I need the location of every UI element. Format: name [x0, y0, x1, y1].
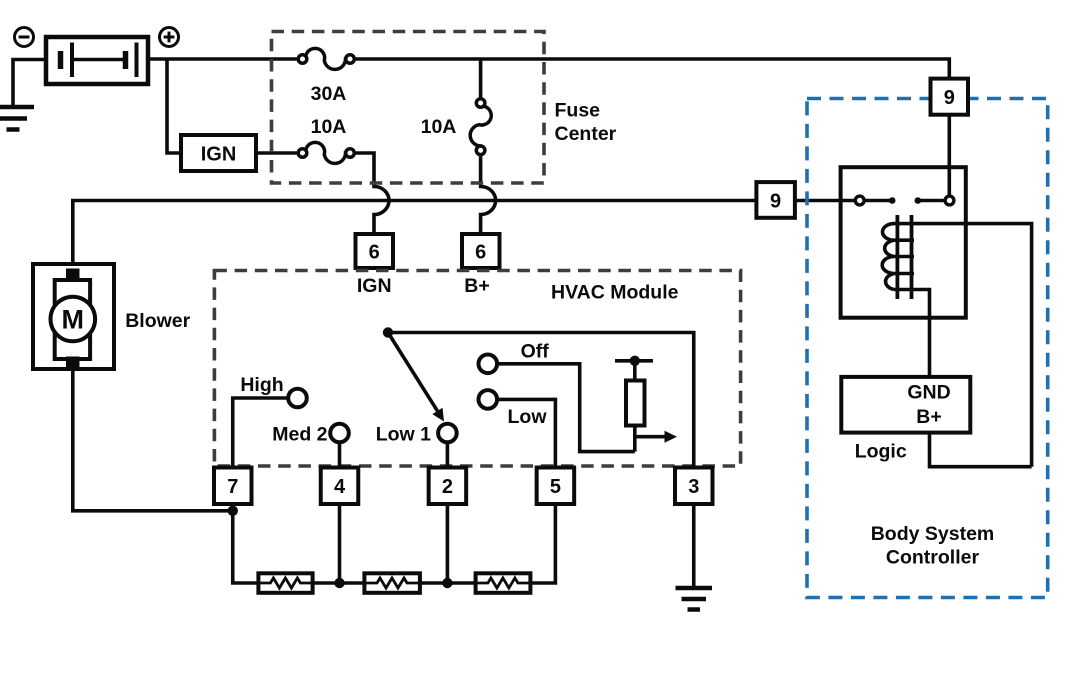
contact High [288, 389, 307, 408]
wire Low 1 contact to connector 2 [446, 442, 450, 467]
svg-text:2: 2 [442, 476, 453, 498]
contact Low [479, 390, 498, 409]
arrow output of resistor [635, 435, 666, 439]
ignition switch box IGN [181, 135, 256, 171]
wire connector 3 to ground [692, 504, 696, 588]
wire IGN box to 10A fuse [256, 151, 297, 155]
contact Med 2 [330, 424, 349, 443]
battery positive terminal symbol [160, 28, 179, 47]
relay contact terminals [855, 196, 954, 205]
wire battery negative to ground [13, 60, 46, 108]
junction node connector 4 column [334, 578, 344, 588]
contact Low 1 [438, 424, 457, 443]
connector 3 [675, 468, 713, 505]
ground (battery) [0, 107, 34, 130]
wire 10A fuse to connector 6 IGN with crossover hop [356, 153, 389, 234]
svg-text:10A: 10A [421, 116, 457, 138]
connector 9 (top) [931, 79, 969, 115]
svg-text:Logic: Logic [855, 441, 907, 463]
connector 7 [214, 468, 252, 505]
relay K1 box [841, 167, 966, 318]
svg-text:M: M [62, 305, 85, 335]
wire positive junction down to IGN switch [167, 59, 181, 153]
ground (HVAC) [676, 588, 713, 610]
Fuse Center dashed enclosure [272, 32, 545, 184]
connector 5 [537, 468, 575, 505]
wire connector 9 to relay contact [947, 115, 951, 197]
contact Off [479, 355, 498, 374]
connector 9 (left) [756, 182, 795, 218]
wire High contact to connector 7 [233, 398, 288, 468]
wire vertical fuse to connector 6 B+ with crossover hop [481, 156, 496, 234]
svg-text:3: 3 [688, 476, 699, 498]
svg-text:7: 7 [227, 476, 238, 498]
svg-text:IGN: IGN [201, 144, 237, 166]
svg-text:Low 1: Low 1 [376, 424, 431, 446]
resistor R3 (blower resistor) [476, 573, 531, 593]
Body System Controller dashed enclosure [807, 99, 1048, 598]
svg-text:B+: B+ [464, 275, 489, 297]
svg-text:9: 9 [944, 87, 955, 109]
svg-text:Controller: Controller [886, 547, 980, 569]
svg-text:GND: GND [907, 382, 950, 404]
wire Off contact to resistor bottom [497, 364, 635, 452]
wire blower to connector 7 column [73, 369, 233, 511]
resistor R1 (blower resistor) [258, 573, 312, 593]
junction node below connector 7 [228, 506, 238, 516]
switch pivot node [383, 327, 393, 337]
svg-text:Off: Off [521, 341, 550, 363]
svg-text:HVAC Module: HVAC Module [551, 282, 679, 304]
svg-text:10A: 10A [311, 116, 347, 138]
wire Low contact to connector 5 [497, 399, 555, 467]
wire R1 to R2 [313, 581, 365, 585]
wire coil bottom terminal to GND B+ box [894, 290, 930, 377]
resistor R2 (blower resistor) [364, 573, 420, 593]
connector 6 (IGN) [356, 234, 394, 268]
svg-text:4: 4 [334, 476, 346, 498]
connector 2 [429, 468, 467, 505]
svg-text:6: 6 [475, 242, 486, 264]
svg-text:Blower: Blower [125, 310, 190, 332]
svg-text:6: 6 [369, 242, 380, 264]
node at resistor top [630, 356, 640, 366]
rotary switch arm with arrow [388, 333, 437, 411]
svg-text:Center: Center [555, 123, 617, 145]
wire connector 9 to relay common [795, 199, 856, 203]
svg-text:Low: Low [508, 406, 548, 428]
svg-text:IGN: IGN [357, 275, 392, 297]
relay coil L1 [882, 215, 914, 299]
svg-text:30A: 30A [311, 83, 347, 105]
wire R2 to R3 [420, 581, 476, 585]
fuse F1 30A [298, 48, 354, 69]
wire connector 7 to resistor chain [233, 504, 259, 583]
svg-text:Body System: Body System [871, 523, 995, 545]
connector 6 (B+) [462, 234, 500, 268]
wire R3 to connector 5 [530, 504, 555, 583]
blower motor M1 [33, 264, 114, 369]
fuse F3 10A vertical [479, 59, 483, 98]
logic block GND B+ [841, 377, 970, 433]
svg-text:Med 2: Med 2 [272, 424, 327, 446]
wire connector 4 to junction [338, 504, 342, 583]
wire coil top terminal to logic loop [894, 224, 1032, 467]
wire GND B+ box to logic loop [930, 433, 1032, 467]
wire Med 2 contact to connector 4 [338, 442, 342, 467]
svg-text:High: High [240, 374, 283, 396]
svg-text:5: 5 [550, 476, 561, 498]
wire main bus from blower column to connector 9 [73, 201, 757, 265]
fuse F2 10A [298, 142, 354, 163]
battery negative terminal symbol [15, 28, 34, 47]
resistor R4 (thermal limiter) [615, 361, 653, 452]
wire 30A fuse output to body controller corner [356, 59, 949, 79]
svg-text:B+: B+ [916, 406, 941, 428]
connector 4 [321, 468, 359, 505]
wire battery positive to fuse 30A [148, 57, 297, 61]
svg-text:Fuse: Fuse [555, 100, 601, 122]
wire connector 2 to junction [446, 504, 450, 583]
junction node connector 2 column [442, 578, 452, 588]
HVAC Module dashed enclosure [214, 271, 740, 467]
battery B1 [46, 37, 148, 84]
switch common wire to connector 3 [388, 333, 694, 468]
svg-text:9: 9 [770, 191, 781, 213]
